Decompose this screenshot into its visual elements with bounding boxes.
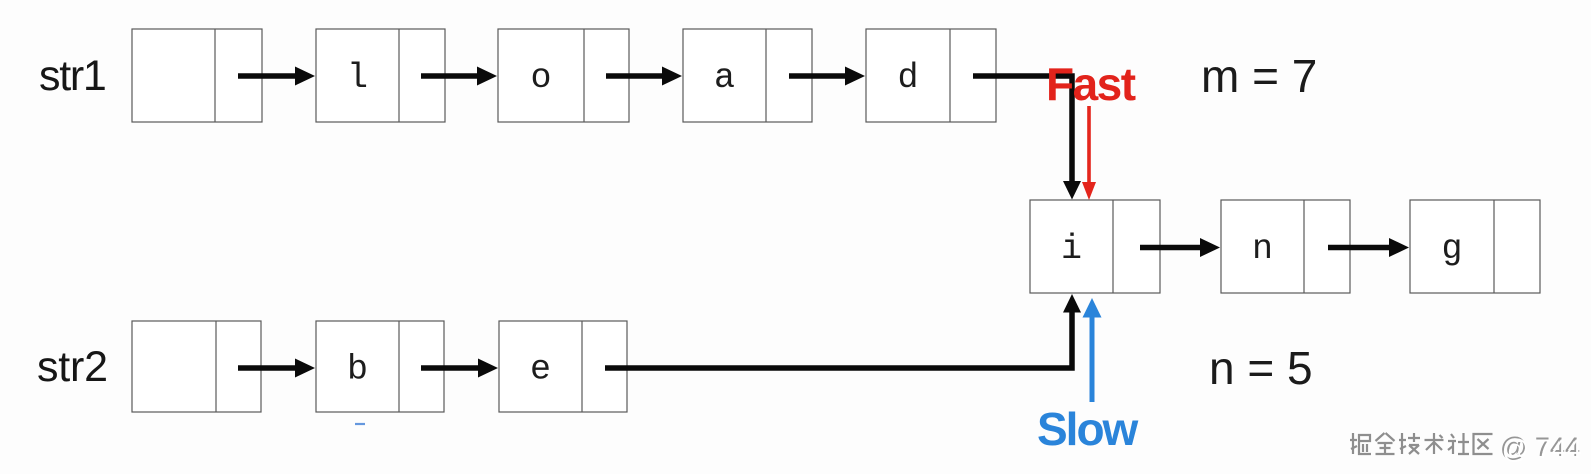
node1-head	[132, 29, 262, 122]
node d	[866, 29, 996, 122]
svg-text:o: o	[530, 58, 551, 98]
svg-text:a: a	[714, 58, 735, 98]
svg-text:@ 744: @ 744	[1502, 434, 1582, 464]
arrow n->g	[1328, 238, 1409, 257]
arrow d->i elbow	[973, 76, 1081, 200]
node2-head	[132, 321, 261, 412]
node l	[316, 29, 445, 122]
node g	[1410, 200, 1540, 293]
svg-text:n = 5: n = 5	[1209, 342, 1313, 394]
svg-text:g: g	[1441, 229, 1462, 269]
svg-text:n: n	[1252, 229, 1273, 269]
node i	[1030, 200, 1160, 293]
arrow o->a	[606, 67, 682, 86]
stray blue mark	[355, 423, 365, 425]
svg-text:b: b	[347, 350, 368, 390]
watermark 掘金技术社区 @ 744	[1350, 433, 1493, 454]
Fast pointer arrow (red)	[1082, 106, 1096, 200]
svg-text:i: i	[1061, 229, 1082, 269]
node a	[683, 29, 812, 122]
svg-text:Fast: Fast	[1046, 58, 1136, 110]
arrow i->n	[1140, 238, 1220, 257]
svg-text:d: d	[897, 58, 918, 98]
svg-text:str2: str2	[37, 343, 108, 391]
arrow head1->l	[238, 67, 315, 86]
node b	[316, 321, 444, 412]
svg-text:m = 7: m = 7	[1201, 50, 1317, 102]
svg-text:str1: str1	[39, 52, 105, 100]
arrow e->i elbow	[605, 294, 1081, 368]
arrow head2->b	[238, 359, 315, 378]
arrow l->o	[421, 67, 497, 86]
node e	[499, 321, 627, 412]
svg-text:e: e	[530, 350, 551, 390]
node n	[1221, 200, 1350, 293]
arrow a->d	[789, 67, 865, 86]
svg-text:Slow: Slow	[1037, 403, 1139, 455]
Slow pointer arrow (blue)	[1083, 298, 1102, 402]
svg-text:l: l	[347, 58, 368, 98]
node o	[498, 29, 629, 122]
arrow b->e	[421, 359, 498, 378]
